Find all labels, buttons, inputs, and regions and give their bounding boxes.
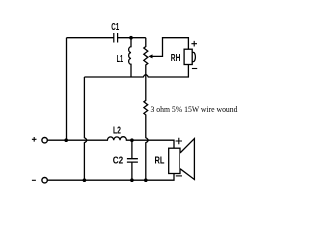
- svg-text:L2: L2: [113, 125, 121, 136]
- svg-text:RH: RH: [171, 53, 181, 64]
- svg-text:RL: RL: [155, 156, 165, 167]
- svg-text:C1: C1: [111, 22, 119, 33]
- svg-text:L1: L1: [117, 54, 124, 65]
- svg-text:3 ohm 5% 15W wire wound: 3 ohm 5% 15W wire wound: [151, 105, 238, 114]
- svg-text:C2: C2: [113, 156, 124, 167]
